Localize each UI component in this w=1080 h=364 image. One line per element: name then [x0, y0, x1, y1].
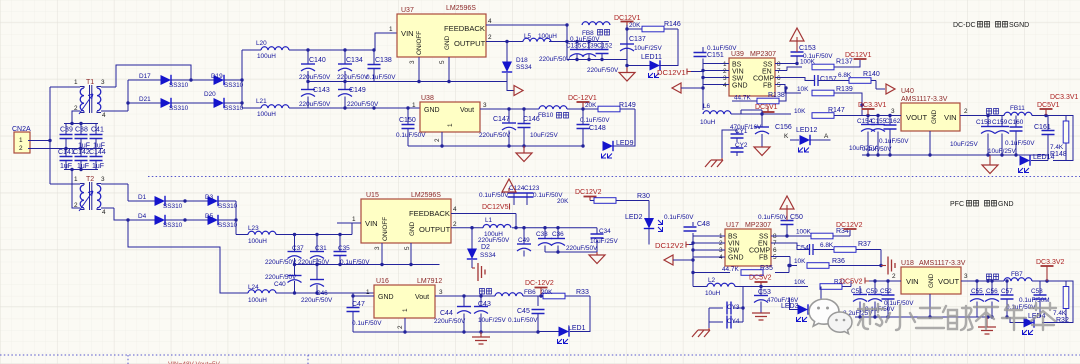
svg-text:2: 2	[74, 105, 78, 112]
svg-text:C152: C152	[597, 43, 613, 50]
diode D21	[139, 96, 189, 112]
resistor R30 20K	[557, 193, 650, 218]
svg-text:LED2: LED2	[625, 214, 643, 221]
ground below C156	[754, 147, 770, 156]
LED2	[644, 218, 654, 229]
svg-text:SW: SW	[732, 76, 744, 83]
svg-text:10K: 10K	[794, 108, 806, 115]
svg-text:1: 1	[412, 102, 416, 109]
capacitor C52	[880, 281, 914, 317]
svg-text:1: 1	[74, 79, 78, 86]
svg-text:MP2307: MP2307	[750, 51, 776, 58]
svg-text:0.1uF/50V: 0.1uF/50V	[340, 259, 370, 266]
svg-text:0.1uF/50V: 0.1uF/50V	[758, 214, 788, 221]
svg-text:4: 4	[453, 206, 457, 213]
capacitor C141	[58, 149, 75, 161]
resistor R146 20K	[627, 21, 681, 32]
svg-text:44.7K: 44.7K	[734, 95, 751, 102]
LED9	[602, 140, 634, 158]
inductor L2	[693, 277, 795, 297]
watermark wechat logo	[809, 299, 852, 334]
svg-text:R149: R149	[619, 102, 636, 109]
svg-text:0.1uF/50V: 0.1uF/50V	[366, 74, 396, 81]
svg-text:ON/OFF: ON/OFF	[416, 31, 423, 55]
op-amp U37 regulator LM2596S	[389, 5, 492, 64]
svg-text:2: 2	[453, 221, 457, 228]
svg-text:L20: L20	[256, 40, 267, 47]
LED3	[781, 303, 808, 322]
svg-text:220uF/50V: 220uF/50V	[265, 259, 297, 266]
ground bars below U18	[986, 317, 988, 327]
svg-text:SGND: SGND	[1009, 22, 1029, 29]
wire U37 feedback and output	[486, 25, 609, 82]
svg-text:CN2A: CN2A	[12, 126, 31, 133]
capacitor C137	[620, 29, 662, 66]
svg-text:FB8: FB8	[582, 30, 594, 37]
capacitor C161	[1016, 116, 1055, 161]
svg-text:SS310: SS310	[169, 105, 189, 112]
ground below C53	[752, 313, 770, 320]
connector CN2A	[12, 126, 31, 153]
diode D5	[205, 213, 238, 229]
svg-text:BS: BS	[732, 62, 742, 69]
svg-text:C124: C124	[509, 185, 525, 192]
svg-text:220uF/50V: 220uF/50V	[299, 101, 331, 108]
svg-text:EN: EN	[762, 69, 772, 76]
capacitor C147	[479, 109, 516, 146]
wire bottom rails	[294, 223, 440, 293]
diode D19	[211, 73, 244, 89]
svg-text:DC12V2: DC12V2	[575, 189, 602, 196]
svg-text:10K: 10K	[797, 86, 809, 93]
svg-text:DC3.3V1: DC3.3V1	[858, 102, 887, 109]
capacitor C155	[871, 116, 887, 156]
capacitor C146	[518, 109, 559, 146]
svg-text:C147: C147	[493, 116, 510, 123]
ground triangle below U40	[982, 165, 998, 174]
svg-text:1: 1	[366, 289, 370, 296]
svg-text:GND: GND	[931, 109, 938, 124]
svg-text:C123: C123	[524, 185, 540, 192]
capacitor C135	[570, 42, 584, 60]
svg-text:GND: GND	[378, 294, 394, 301]
svg-text:220uF/50V: 220uF/50V	[347, 101, 379, 108]
capacitor C134	[337, 50, 369, 82]
svg-text:DC3.3V1: DC3.3V1	[1050, 94, 1079, 101]
svg-text:A: A	[824, 133, 829, 140]
svg-text:EN: EN	[758, 241, 768, 248]
svg-text:R35: R35	[760, 265, 773, 272]
diode D17	[139, 73, 189, 89]
svg-text:5: 5	[777, 82, 781, 89]
svg-text:SS310: SS310	[218, 222, 238, 229]
capacitor CY4	[709, 308, 743, 329]
svg-text:220uF/50V: 220uF/50V	[298, 259, 330, 266]
svg-text:100uH: 100uH	[248, 238, 267, 245]
svg-text:OUTPUT: OUTPUT	[419, 225, 451, 234]
port arrow right (U37 gnd rail)	[507, 82, 514, 91]
capacitor C58	[1006, 281, 1047, 317]
wire bridge2	[101, 184, 248, 293]
svg-text:FB: FB	[759, 255, 768, 262]
junction CN2A net1	[48, 139, 51, 142]
svg-text:C36: C36	[552, 231, 564, 238]
svg-text:100uH: 100uH	[538, 33, 557, 40]
svg-text:C158: C158	[976, 119, 992, 126]
svg-text:220uF/50V: 220uF/50V	[265, 274, 297, 281]
capacitor C152	[596, 42, 609, 60]
svg-text:220uF/50V: 220uF/50V	[478, 237, 510, 244]
capacitor C124	[508, 185, 525, 205]
svg-text:1uF: 1uF	[92, 163, 104, 170]
svg-text:D1: D1	[138, 194, 147, 201]
svg-text:D17: D17	[139, 73, 151, 80]
capacitor C54 series	[796, 244, 813, 255]
LED1	[558, 325, 586, 344]
svg-text:CY3: CY3	[727, 304, 740, 311]
svg-text:C135: C135	[566, 43, 582, 50]
capacitor C34	[545, 228, 618, 252]
diode D4	[138, 213, 183, 229]
wire U39 left bus	[703, 47, 729, 110]
resistor R139 10K	[775, 85, 862, 106]
resistor R137 100K	[775, 59, 860, 71]
svg-text:C143: C143	[313, 87, 330, 94]
svg-text:1: 1	[402, 308, 409, 312]
svg-text:220uF/50V: 220uF/50V	[566, 245, 598, 252]
svg-text:SS310: SS310	[169, 82, 189, 89]
svg-text:20K: 20K	[585, 102, 597, 109]
svg-text:D5: D5	[205, 213, 214, 220]
svg-text:FB7: FB7	[1011, 271, 1023, 278]
svg-text:C46: C46	[316, 290, 328, 297]
wire U17 left bus	[693, 222, 725, 287]
capacitor C47	[347, 296, 383, 332]
capacitor C53	[754, 287, 799, 314]
svg-text:C53: C53	[758, 289, 771, 296]
resistor R34 100K	[787, 228, 850, 239]
bead FB11	[987, 105, 1033, 116]
ferrite bead FB6	[480, 289, 537, 297]
svg-text:C44: C44	[440, 310, 453, 317]
svg-text:44.7K: 44.7K	[722, 266, 739, 273]
svg-text:5: 5	[439, 60, 446, 64]
op-amp U18	[892, 260, 968, 294]
svg-text:R139: R139	[836, 86, 853, 93]
svg-text:0.1uF/50V: 0.1uF/50V	[508, 317, 538, 324]
svg-text:10uH: 10uH	[700, 119, 716, 126]
capacitor C45	[508, 296, 545, 332]
svg-text:R36: R36	[832, 258, 845, 265]
svg-text:LED1: LED1	[568, 325, 586, 332]
svg-text:DC5V2: DC5V2	[749, 275, 772, 282]
svg-text:C37: C37	[292, 245, 304, 252]
svg-text:C41: C41	[91, 127, 104, 134]
inductor L6	[700, 103, 741, 126]
svg-text:C31: C31	[315, 245, 327, 252]
op-amp U15 regulator LM2596S	[352, 192, 457, 250]
port arrow left of U17	[664, 255, 673, 265]
svg-text:C150: C150	[399, 117, 416, 124]
svg-text:10K: 10K	[794, 279, 806, 286]
wire bridge1	[101, 50, 242, 111]
diode D2	[467, 249, 477, 260]
svg-text:3: 3	[439, 289, 443, 296]
inductor L5	[523, 33, 557, 42]
svg-text:10uF/25V: 10uF/25V	[590, 238, 618, 245]
op-amp U38	[412, 95, 487, 142]
svg-text:Vout: Vout	[460, 107, 474, 114]
svg-text:7.4K: 7.4K	[1050, 144, 1064, 151]
svg-text:D19: D19	[211, 73, 223, 80]
capacitor C139	[582, 42, 596, 60]
svg-text:0.1uF/50V: 0.1uF/50V	[664, 214, 694, 221]
svg-text:LED11: LED11	[641, 54, 662, 61]
resistor R31 10K	[794, 279, 851, 290]
svg-text:C140: C140	[309, 57, 326, 64]
capacitor C50 with power arrow	[758, 214, 803, 225]
capacitor C59	[865, 281, 895, 317]
svg-text:0.1uF/50V: 0.1uF/50V	[1005, 140, 1035, 147]
svg-text:LED14: LED14	[1033, 154, 1055, 161]
svg-text:L1: L1	[485, 217, 493, 224]
svg-text:SS: SS	[763, 62, 773, 69]
svg-text:PFC: PFC	[950, 201, 964, 208]
svg-text:U15: U15	[366, 192, 379, 199]
svg-text:GND: GND	[424, 107, 440, 114]
svg-text:D4: D4	[138, 213, 147, 220]
svg-text:C35: C35	[338, 245, 350, 252]
svg-text:DC-12V1: DC-12V1	[568, 95, 597, 102]
capacitor CY2	[731, 142, 748, 156]
svg-text:SS310: SS310	[224, 105, 244, 112]
svg-text:C134: C134	[346, 57, 363, 64]
capacitor C57	[1001, 281, 1050, 317]
chassis ground CY caps	[721, 158, 723, 160]
svg-text:220uF/50V: 220uF/50V	[587, 67, 619, 74]
svg-text:C51: C51	[851, 288, 863, 295]
resistor R37 6.8K	[771, 241, 881, 266]
wire LED9 loop	[614, 109, 636, 146]
svg-text:C54: C54	[796, 245, 809, 252]
svg-text:C34: C34	[599, 228, 611, 235]
svg-text:3: 3	[483, 102, 487, 109]
capacitor C144	[60, 149, 106, 170]
svg-text:LED12: LED12	[796, 127, 818, 134]
svg-text:4: 4	[488, 18, 492, 25]
wire arrow to bus	[681, 87, 703, 89]
svg-text:2: 2	[964, 108, 968, 115]
svg-text:CY4: CY4	[727, 318, 740, 325]
svg-text:2: 2	[397, 325, 404, 329]
svg-text:2: 2	[19, 145, 23, 152]
ground below D2	[478, 263, 485, 281]
capacitor C55	[970, 281, 984, 317]
svg-text:VIN: VIN	[365, 219, 378, 228]
svg-text:220uF/50V: 220uF/50V	[479, 132, 511, 139]
svg-text:C48: C48	[697, 221, 710, 228]
svg-text:GND: GND	[728, 255, 744, 262]
svg-text:1: 1	[389, 26, 393, 33]
svg-text:DC3.3V2: DC3.3V2	[1036, 259, 1065, 266]
svg-text:VIN: VIN	[401, 29, 414, 38]
capacitor C49	[478, 228, 531, 257]
inductor L21	[242, 98, 308, 118]
svg-text:10K: 10K	[794, 258, 806, 265]
wire U16 pins	[353, 293, 538, 332]
capacitor C156	[730, 123, 792, 147]
svg-text:L24: L24	[248, 284, 259, 291]
svg-text:0.1uF/50V: 0.1uF/50V	[707, 45, 737, 52]
svg-text:1uF: 1uF	[77, 163, 89, 170]
divider tick	[128, 355, 308, 364]
capacitor C149	[338, 82, 379, 109]
ground below C34	[596, 252, 598, 255]
capacitor C40	[265, 265, 302, 294]
svg-text:20K: 20K	[541, 289, 553, 296]
capacitor CY3	[709, 287, 743, 323]
wire FB11 out	[988, 116, 1066, 122]
svg-text:7: 7	[777, 68, 781, 75]
svg-text:10uF/25V: 10uF/25V	[634, 45, 662, 52]
svg-text:U39: U39	[731, 51, 744, 58]
svg-text:3: 3	[964, 273, 968, 280]
svg-text:VOUT: VOUT	[938, 277, 959, 286]
svg-text:LM7912: LM7912	[417, 278, 442, 285]
svg-text:U40: U40	[901, 88, 914, 95]
svg-text:LM2596S: LM2596S	[446, 5, 476, 12]
svg-text:R147: R147	[828, 107, 845, 114]
svg-text:3: 3	[101, 79, 105, 86]
svg-text:CY2: CY2	[735, 142, 748, 149]
resistor R32 vertical	[1042, 281, 1073, 324]
capacitor C33	[536, 228, 552, 252]
svg-text:6: 6	[777, 75, 781, 82]
svg-text:C153: C153	[799, 45, 816, 52]
svg-text:CY1: CY1	[735, 128, 748, 135]
svg-text:D18: D18	[516, 57, 528, 64]
svg-text:10uF/25V: 10uF/25V	[530, 132, 558, 139]
svg-text:2: 2	[488, 34, 492, 41]
svg-text:C40: C40	[274, 281, 286, 288]
capacitor C158	[950, 116, 995, 156]
wire U40 vout rail	[862, 116, 990, 156]
svg-text:FB10: FB10	[538, 112, 554, 119]
svg-text:L2: L2	[708, 277, 716, 284]
svg-text:C56: C56	[986, 288, 998, 295]
ferrite bead FB8	[582, 22, 610, 37]
resistor R147 10K	[794, 105, 862, 118]
svg-text:0.1uF/50V: 0.1uF/50V	[479, 192, 509, 199]
chassis ground CY3/CY4	[708, 328, 710, 330]
LED14	[1019, 154, 1055, 173]
svg-text:C52: C52	[880, 288, 892, 295]
LED4	[1023, 313, 1046, 335]
svg-text:R138: R138	[768, 92, 785, 99]
inductor L23	[236, 225, 294, 245]
svg-text:C33: C33	[536, 231, 548, 238]
inductor L20	[242, 40, 308, 60]
capacitor C159	[992, 116, 1035, 156]
transformer T2	[50, 170, 106, 217]
ground below C137	[626, 66, 628, 73]
svg-text:D2: D2	[481, 244, 490, 251]
svg-text:U38: U38	[421, 95, 434, 102]
svg-text:DC12V1: DC12V1	[657, 68, 686, 77]
capacitor C138	[366, 50, 396, 82]
wire DC12V1 wire short	[691, 71, 703, 73]
svg-text:R32: R32	[1056, 317, 1069, 324]
inductor L24	[248, 284, 294, 304]
svg-text:220uF/50V: 220uF/50V	[299, 74, 331, 81]
wire LED12	[790, 139, 831, 141]
svg-text:DC12V5: DC12V5	[482, 204, 509, 211]
capacitor C35	[334, 235, 371, 267]
svg-text:C160: C160	[1008, 119, 1024, 126]
svg-text:C151: C151	[707, 52, 724, 59]
svg-text:FB6: FB6	[524, 289, 536, 296]
svg-text:SS310: SS310	[163, 203, 183, 210]
svg-text:C49: C49	[518, 237, 530, 244]
svg-text:C55: C55	[971, 288, 983, 295]
svg-text:R37: R37	[858, 241, 871, 248]
svg-text:T1: T1	[86, 79, 94, 86]
capacitor C151	[694, 45, 738, 59]
capacitor C39	[60, 127, 73, 139]
svg-text:DC12V2: DC12V2	[836, 222, 863, 229]
svg-text:2: 2	[434, 138, 441, 142]
wire U37 pins 3,5 stubs	[419, 57, 449, 82]
ground below U38 rail	[523, 146, 525, 153]
capacitor C148	[577, 109, 611, 146]
svg-text:C50: C50	[790, 214, 803, 221]
svg-text:5: 5	[404, 246, 411, 250]
wire U18 vin	[855, 281, 990, 317]
svg-text:L5: L5	[524, 33, 532, 40]
svg-text:220uF/50V: 220uF/50V	[434, 318, 466, 325]
wire cap cluster rails	[58, 124, 103, 170]
svg-text:SS: SS	[759, 234, 769, 241]
svg-text:R137: R137	[836, 59, 853, 66]
svg-text:3: 3	[409, 60, 416, 64]
svg-text:VOUT: VOUT	[906, 113, 927, 122]
svg-text:6.8K: 6.8K	[838, 72, 852, 79]
capacitor C160	[988, 116, 1024, 156]
svg-text:2: 2	[892, 273, 896, 280]
svg-text:3: 3	[374, 246, 381, 250]
wire FB7 out	[988, 281, 1066, 288]
sheet divider dotted bottom	[0, 354, 1080, 356]
sheet divider dotted mid	[148, 176, 1080, 178]
wire LED11 loop	[627, 29, 678, 66]
svg-text:C148: C148	[589, 125, 606, 132]
LED12	[796, 127, 818, 152]
svg-text:BS: BS	[728, 234, 738, 241]
svg-text:U37: U37	[401, 7, 414, 14]
svg-text:U16: U16	[376, 278, 389, 285]
svg-text:10uF/25V: 10uF/25V	[950, 141, 978, 148]
diode D1	[138, 194, 183, 210]
capacitor C31	[298, 235, 330, 267]
svg-text:U18: U18	[901, 260, 914, 267]
svg-text:220uF/50V: 220uF/50V	[337, 74, 369, 81]
svg-text:100uH: 100uH	[257, 53, 276, 60]
LED11	[641, 54, 662, 78]
svg-text:100K: 100K	[800, 59, 816, 66]
svg-text:4: 4	[102, 209, 106, 216]
svg-text:VIN: VIN	[728, 241, 740, 248]
svg-text:0.1uF/50V: 0.1uF/50V	[352, 320, 382, 327]
